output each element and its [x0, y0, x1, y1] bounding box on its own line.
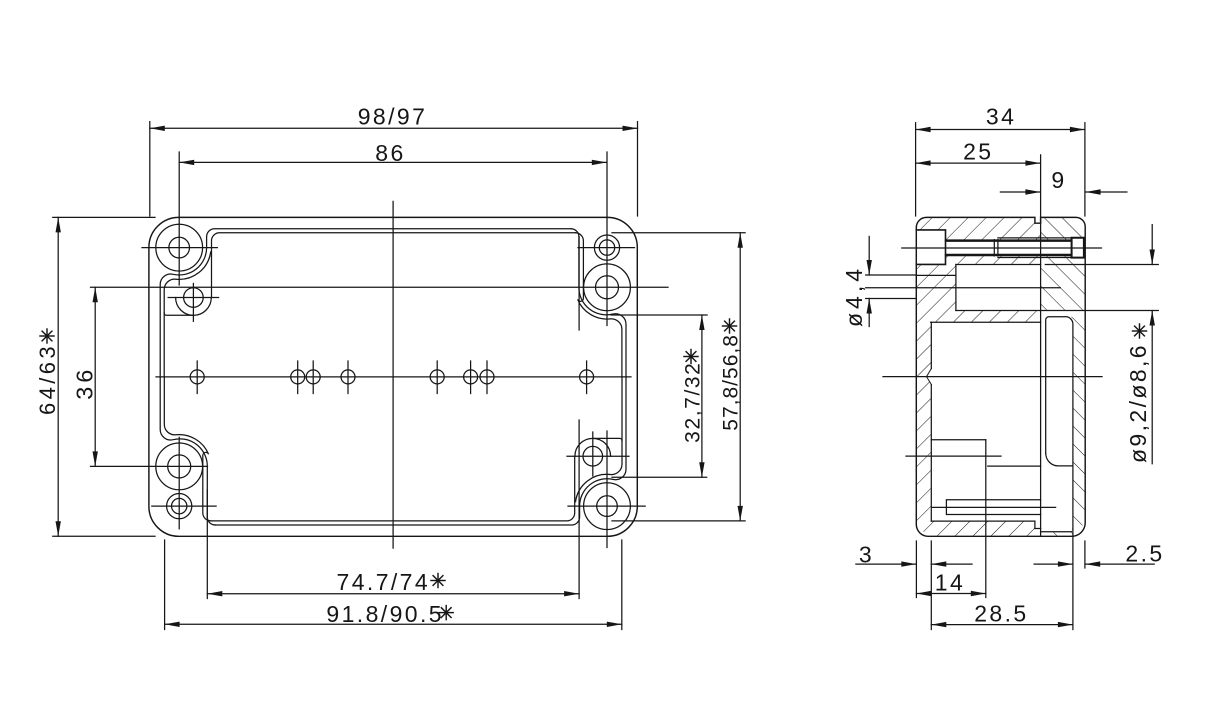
svg-text:34: 34 — [986, 104, 1016, 130]
screw thread insert in lid — [1072, 238, 1084, 258]
hatch: base top flange — [916, 217, 1040, 239]
centerline top-left hole vertical — [192, 284, 194, 322]
pilot hole notch in side wall — [927, 369, 933, 385]
dimension oe4.4 screw hole — [868, 236, 870, 275]
screw hole bottom-right — [597, 496, 618, 517]
dimension 98/97 overall width — [149, 122, 151, 216]
inner wall line B: outer wrap of top-right boss into right wall — [575, 233, 622, 377]
flange lower edge — [931, 321, 1041, 323]
pcb guide rail section — [946, 500, 1040, 515]
svg-text:3: 3 — [859, 541, 874, 567]
svg-text:91.8/90.5: 91.8/90.5 — [326, 601, 444, 627]
dimension 86 screw spacing — [179, 161, 607, 163]
svg-text:98/97: 98/97 — [358, 103, 428, 129]
centerline top-left hole horizontal — [168, 297, 218, 299]
star for 74.7/74 — [431, 574, 445, 588]
screw boss front face — [955, 265, 957, 311]
star for 32.7/32 — [684, 350, 698, 364]
dimension 64/63 overall height — [53, 216, 155, 218]
star for 57.8/56.8 — [723, 319, 737, 333]
oe4.4 ext line lower — [866, 298, 917, 300]
screw axis centerline — [902, 247, 1102, 249]
horizontal centerline of section — [883, 376, 1102, 378]
lid screw boss top-left — [156, 224, 203, 271]
mounting hole top-left — [184, 288, 204, 308]
svg-text:ø4,4: ø4,4 — [841, 265, 867, 327]
svg-text:32,7/32: 32,7/32 — [681, 362, 704, 443]
dimension 25 base depth — [916, 162, 1041, 164]
centerline top-left boss horizontal — [142, 247, 217, 249]
centerline bottom-right boss horizontal — [568, 505, 645, 507]
horizontal centerline of enclosure — [156, 376, 631, 378]
top-left lobe bottom line — [164, 313, 193, 315]
dimension 57.8/56.8 — [612, 232, 745, 234]
dimension 9 lid depth — [1000, 191, 1040, 193]
inner wall line B: outer wrap of top-left boss into left wall — [164, 252, 211, 377]
svg-text:9: 9 — [1051, 167, 1066, 193]
boss face at screw — [993, 240, 995, 256]
centerline bottom-right hole horizontal — [567, 455, 629, 457]
svg-text:74.7/74: 74.7/74 — [337, 569, 431, 595]
svg-text:28.5: 28.5 — [974, 600, 1028, 626]
section view outer outline — [916, 217, 1085, 536]
lid inner cavity bottom corner — [1046, 453, 1073, 466]
screw boss hole centerline — [866, 287, 1061, 289]
pilot hole at x=487.0 — [480, 370, 494, 384]
pilot hole at x=586.6 — [580, 370, 594, 384]
svg-text:25: 25 — [963, 139, 993, 165]
dimension 32.7/32 — [611, 314, 707, 316]
oe4.4 ext line upper — [866, 274, 917, 276]
internal step edge — [931, 439, 986, 441]
centerline top-right boss horizontal / 36 ext — [91, 286, 669, 288]
centerline bottom-left boss horizontal / 36 ext — [91, 465, 208, 467]
screw boss bottom = oe9.2 ext — [956, 310, 1158, 312]
hatch: base flange under screw — [916, 256, 1040, 276]
lid screw boss bottom-right — [584, 483, 631, 530]
centerline top-left boss vertical / 86 ext — [178, 152, 180, 285]
svg-text:ø9,2/ø8,6: ø9,2/ø8,6 — [1125, 343, 1151, 463]
dimension 34 overall depth — [915, 123, 917, 216]
inner wall line A: around top-right boss into right wall — [571, 229, 626, 377]
mounting hole bottom-right — [583, 446, 603, 466]
dimension 28.5 — [931, 624, 1073, 626]
svg-text:86: 86 — [375, 140, 405, 166]
pilot hole at x=297.7 — [291, 370, 305, 384]
inner wall surface upper — [930, 322, 932, 368]
screw hole top-right — [596, 276, 619, 299]
mounting hole centerline lower — [906, 455, 1001, 457]
hatch: lid top — [1041, 217, 1086, 239]
hatch: lid side wall — [1041, 317, 1086, 537]
lid inner cavity wall — [1046, 317, 1073, 529]
svg-text:14: 14 — [935, 569, 965, 595]
inner wall line A: top edge, around top-left boss, left edge — [160, 229, 571, 377]
inner wall contours, bottom half (180deg rotation) — [160, 377, 626, 525]
centerline bottom-left ring horizontal — [152, 505, 216, 507]
star for 91.8/90.5 — [439, 606, 453, 620]
svg-text:57,8/56,8: 57,8/56,8 — [720, 334, 743, 431]
svg-text:64/63: 64/63 — [35, 343, 60, 415]
pilot hole at x=437.2 — [430, 370, 444, 384]
star for oe9.2/oe8.6 — [1133, 324, 1147, 338]
boss ledge line — [988, 465, 1041, 467]
dimension oe9.2/oe8.6 boss — [1151, 225, 1153, 265]
lid bottom lip — [1041, 531, 1072, 533]
hatch: base side wall and floor — [916, 322, 1040, 536]
pilot hole at x=197.2 — [190, 370, 204, 384]
lid screw boss bottom-left — [156, 443, 203, 490]
screw boss top = oe9.2 ext — [956, 264, 1041, 266]
dimension 74.7/74 — [206, 490, 208, 599]
flange underside — [916, 274, 956, 276]
centerline top-right ring horizontal — [578, 247, 635, 249]
pilot hole at x=348.0 — [341, 370, 355, 384]
mounting hole ring bottom-left — [167, 494, 192, 519]
bottom boss centerline — [932, 506, 1055, 508]
dimension 91.8/90.5 — [164, 540, 166, 630]
hatch: lid below screw — [1041, 256, 1086, 311]
pilot hole at x=470.6 — [464, 370, 478, 384]
hatch: base flange lower strip — [916, 275, 1040, 322]
enclosure body outer wall (plan view, 98x64) — [149, 217, 637, 536]
base/lid parting line + 25/9 dim ext — [1040, 155, 1042, 536]
dimension 36 — [94, 287, 96, 466]
lid screw boss top-right — [584, 264, 631, 311]
star for 64/63 — [40, 329, 54, 343]
centerline top-right vertical / 86 ext — [606, 152, 608, 326]
screw hole bottom-left — [168, 455, 191, 478]
svg-text:36: 36 — [71, 366, 97, 400]
centerline bottom-left vertical — [178, 437, 180, 529]
vertical centerline of enclosure — [392, 201, 394, 548]
floor seam step — [1034, 521, 1036, 528]
screw hole top-left — [169, 237, 190, 258]
screw head counterbore — [916, 230, 945, 265]
dimension 2.5 lid wall — [1072, 529, 1074, 630]
svg-text:2.5: 2.5 — [1125, 541, 1164, 567]
dimension 3 wall thickness — [915, 541, 917, 598]
mounting hole ring top-right — [594, 235, 619, 260]
dimension 14 — [916, 593, 985, 595]
lid screw shaft — [946, 239, 1072, 241]
pilot hole at x=313.2 — [306, 370, 320, 384]
internal step / 14 dim ext — [985, 440, 987, 598]
centerline bottom-right vertical — [606, 431, 608, 548]
inner wall line B: top edge, vertical at top-left lobe — [212, 233, 576, 298]
cavity floor — [931, 520, 1035, 522]
top-left mounting hole lobe arc — [176, 298, 212, 316]
inner wall surface lower — [930, 385, 932, 521]
centerline bottom-right hole vertical — [592, 432, 594, 476]
